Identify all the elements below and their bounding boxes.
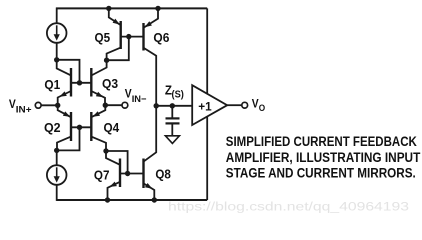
wire I2 to bottom rail xyxy=(56,185,58,201)
wire node A to Q1/Q3 base line xyxy=(57,60,80,83)
wire top supply rail xyxy=(56,7,207,9)
label Q8 xyxy=(155,166,171,181)
label Q5 xyxy=(95,30,111,45)
label Z(S) xyxy=(165,83,184,100)
wire VIN- node to terminal xyxy=(105,104,122,106)
wire right supply vertical xyxy=(206,8,208,200)
wire node B to current source I2 xyxy=(56,150,58,165)
node B junction (Q2 collector / I2) xyxy=(54,148,59,153)
wire Q5 diode connection base to collector xyxy=(107,37,129,61)
junction Q5 emitter on top rail xyxy=(106,6,111,11)
transistor Q7 (NPN mirror, diode connected) xyxy=(106,151,120,200)
wire base line Q5-Q6 xyxy=(121,36,144,38)
label Q4 xyxy=(104,120,120,135)
svg-text:O: O xyxy=(259,103,265,114)
junction Q5/Q6 base xyxy=(126,34,131,39)
node VIN- junction xyxy=(103,103,108,108)
svg-text:Q6: Q6 xyxy=(153,30,169,45)
svg-text:STAGE AND CURRENT MIRRORS.: STAGE AND CURRENT MIRRORS. xyxy=(226,166,416,181)
transistor Q6 (PNP mirror output) xyxy=(144,8,159,105)
current source I1 xyxy=(47,23,67,43)
junction base line Q1/Q3 xyxy=(77,80,82,85)
node A junction (Q1 collector / Q3 base bias) xyxy=(54,57,59,62)
junction Q7/Q8 base xyxy=(125,171,130,176)
wire rail to current source I1 xyxy=(56,8,58,24)
svg-text:(S): (S) xyxy=(172,89,184,100)
transistor Q1 (NPN input diode) xyxy=(57,60,71,106)
label VIN- xyxy=(125,89,147,105)
transistor Q8 (NPN mirror output) xyxy=(144,106,157,200)
transistor Q5 (PNP mirror, diode connected) xyxy=(107,8,121,60)
terminal VIN+ xyxy=(35,102,41,108)
svg-text:Q2: Q2 xyxy=(44,120,61,135)
terminal VO xyxy=(242,102,248,108)
svg-text:Q5: Q5 xyxy=(95,30,111,45)
label Q1 xyxy=(44,77,60,92)
caption text xyxy=(226,134,421,181)
label Q6 xyxy=(153,30,169,45)
svg-text:SIMPLIFIED CURRENT FEEDBACK: SIMPLIFIED CURRENT FEEDBACK xyxy=(226,134,417,149)
wire bottom supply rail xyxy=(57,199,208,201)
label VO xyxy=(252,99,265,114)
label VIN+ xyxy=(9,99,32,115)
svg-text:IN+: IN+ xyxy=(16,104,32,115)
svg-text:IN−: IN− xyxy=(132,94,147,105)
junction base line Q2/Q4 xyxy=(77,125,82,130)
wire base line Q1-Q3 xyxy=(71,82,91,84)
svg-text:Q3: Q3 xyxy=(102,76,118,91)
op-amp buffer U1 (+1) xyxy=(192,85,227,125)
wire base line Q2-Q4 xyxy=(71,126,91,128)
terminal VIN- xyxy=(122,102,128,108)
label Q3 xyxy=(102,76,118,91)
junction Q5 collector / Q3 collector xyxy=(104,58,109,63)
svg-text:Q8: Q8 xyxy=(155,166,171,181)
junction node Z capacitor tap xyxy=(170,103,175,108)
junction Q6 emitter on top rail xyxy=(155,6,160,11)
capacitor C (internal compensation) xyxy=(166,106,180,136)
svg-text:+1: +1 xyxy=(198,100,212,114)
wire node B to Q2/Q4 base line xyxy=(57,127,80,150)
svg-text:Q1: Q1 xyxy=(44,77,60,92)
svg-text:Q7: Q7 xyxy=(94,168,110,183)
wire I1 to node A xyxy=(56,43,58,60)
junction node Z mirror outputs xyxy=(154,103,159,108)
wire buffer output xyxy=(227,104,242,106)
transistor Q3 (NPN, inverting input follower) xyxy=(91,60,106,105)
watermark xyxy=(168,200,409,214)
transistor Q2 (PNP input diode) xyxy=(57,105,71,150)
label Q2 xyxy=(44,120,61,135)
current source I2 xyxy=(47,165,67,185)
svg-text:AMPLIFIER, ILLUSTRATING INPUT: AMPLIFIER, ILLUSTRATING INPUT xyxy=(226,150,421,165)
svg-text:https://blog.csdn.net/qq_40964: https://blog.csdn.net/qq_40964193 xyxy=(168,200,409,214)
wire base line Q7-Q8 xyxy=(120,173,144,175)
junction Q7 collector / Q4 collector xyxy=(103,148,108,153)
node VIN+ junction xyxy=(55,103,60,108)
wire Q7 diode connection collector to base xyxy=(106,151,128,174)
wire VIN+ terminal to node xyxy=(41,104,58,106)
junction Q8 emitter on bottom rail xyxy=(152,197,157,202)
ground xyxy=(165,136,179,144)
transistor Q4 (PNP, inverting input follower) xyxy=(91,105,106,151)
junction Q7 emitter on bottom rail xyxy=(105,197,110,202)
svg-text:Q4: Q4 xyxy=(104,120,120,135)
label Q7 xyxy=(94,168,110,183)
node Z(S) wire to buffer xyxy=(156,105,192,107)
